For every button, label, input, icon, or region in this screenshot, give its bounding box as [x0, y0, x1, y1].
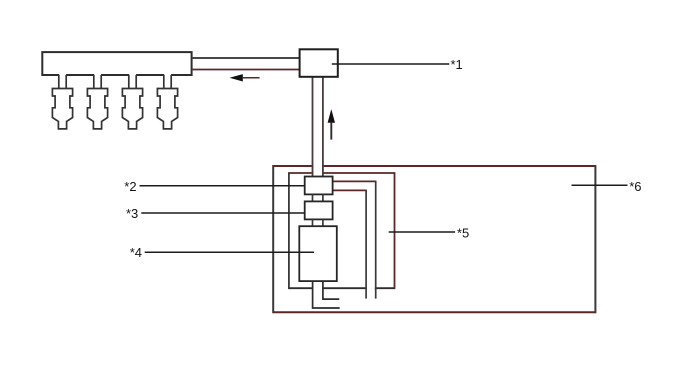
svg-text:*5: *5 — [457, 226, 469, 241]
svg-text:*3: *3 — [126, 206, 138, 221]
svg-text:*1: *1 — [451, 57, 463, 72]
svg-text:*6: *6 — [629, 179, 641, 194]
svg-text:*4: *4 — [130, 245, 142, 260]
svg-text:*2: *2 — [124, 179, 136, 194]
